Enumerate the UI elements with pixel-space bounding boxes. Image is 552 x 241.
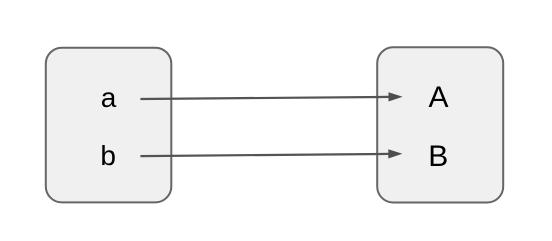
arrow a to A: wire <box>140 97 389 99</box>
arrow b to B: wire <box>140 154 389 156</box>
svg-text:A: A <box>428 81 448 114</box>
left set box <box>46 48 172 203</box>
svg-text:b: b <box>100 140 116 171</box>
svg-text:B: B <box>428 140 448 173</box>
arrow a to A: head <box>389 92 403 101</box>
arrow b to B: head <box>388 149 402 158</box>
right set box <box>377 47 503 202</box>
svg-text:a: a <box>101 82 117 113</box>
